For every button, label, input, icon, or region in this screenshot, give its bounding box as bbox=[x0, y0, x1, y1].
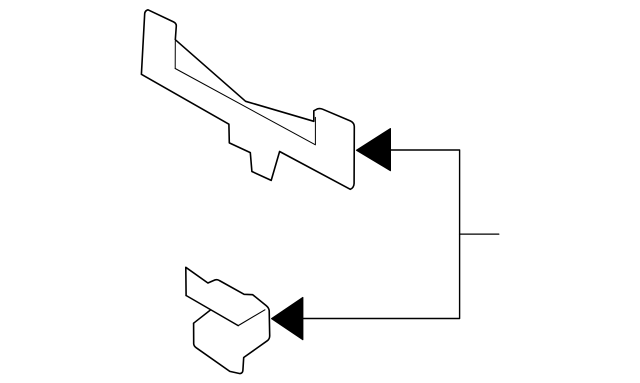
leader line from arrow 1 to junction and down to arrow 2 bbox=[303, 150, 460, 319]
part 2 fold edge V right branch bbox=[238, 310, 265, 326]
part 2 inner edge left bbox=[194, 310, 211, 323]
part 1 inner hidden edge long diagonal bbox=[175, 69, 315, 145]
arrow 1 pointer to part 1 bbox=[357, 129, 391, 171]
part 1 inner hidden edge vertical C-D bbox=[174, 41, 176, 69]
leader stub to label area bbox=[460, 233, 499, 235]
arrow 2 pointer to part 2 bbox=[272, 298, 303, 340]
part 2 fold edge V line bbox=[186, 296, 238, 326]
part 2 lower bracket outline bbox=[186, 267, 270, 373]
part 1 upper bracket outline bbox=[141, 10, 354, 190]
